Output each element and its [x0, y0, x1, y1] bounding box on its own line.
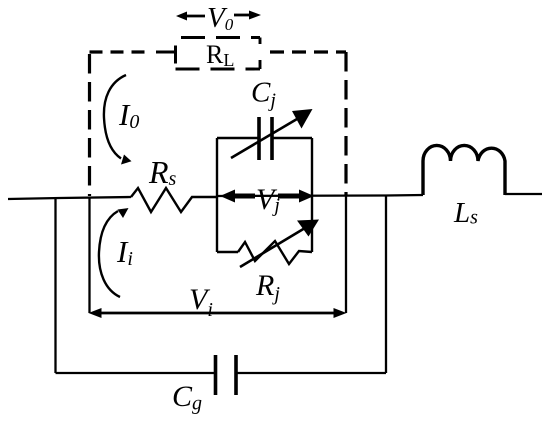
capacitor C_g plates — [216, 355, 237, 395]
inductor L_s — [423, 145, 505, 195]
wire: V_i right leg — [345, 195, 347, 313]
resistor R_L dashed box: bottom edge — [176, 68, 261, 71]
dashed output loop: left edge — [88, 54, 91, 196]
wire: left leg of C_g loop — [54, 198, 56, 373]
resistor R_j variable arrow shaft — [240, 228, 305, 267]
resistor R_j zigzag — [238, 241, 312, 264]
resistor R_L dashed box: solid left tick — [174, 46, 177, 64]
resistor R_j variable arrow head — [297, 220, 319, 237]
wire: right of inductor — [505, 193, 542, 195]
dashed output loop: top edge solid piece joining R_L box — [156, 51, 176, 54]
resistor R_L dashed box: right edge — [259, 38, 262, 70]
capacitor C_j variable arrow shaft — [231, 119, 297, 158]
wire: bottom wire left of C_g — [56, 372, 216, 374]
V_0 measurement arrow left — [184, 15, 205, 18]
wire: right leg of C_g loop — [385, 195, 387, 373]
V_j measurement arrow right part — [278, 194, 301, 199]
wire: main horizontal through junction box to inductor — [217, 195, 423, 196]
resistor R_L dashed box: top edge — [181, 36, 260, 39]
V_0 measurement arrow right — [234, 14, 250, 17]
wire: box bottom edge left stub — [217, 251, 238, 253]
wire: main horizontal left segment — [8, 197, 131, 199]
current I_i curved arrow — [99, 211, 120, 297]
wire: box top edge to C_j left plate — [217, 137, 258, 139]
junction box right edge — [311, 138, 313, 252]
wire: C_j right plate to box top right corner — [272, 137, 312, 139]
V_j measurement arrow left part — [233, 194, 255, 199]
current I_0 curved arrow — [104, 75, 126, 159]
wire: V_i left leg — [88, 197, 90, 313]
dashed output loop: right edge — [344, 52, 347, 196]
resistor R_s zigzag — [131, 188, 217, 212]
dashed output loop: top edge right segment — [270, 50, 346, 53]
capacitor C_j plates — [259, 117, 272, 160]
junction box (C_j / R_j parallel) left edge — [216, 138, 218, 252]
wire: bottom wire right of C_g — [236, 372, 386, 374]
dashed output loop: top edge left segment — [90, 50, 151, 53]
V_i measurement arrow — [96, 312, 339, 315]
capacitor C_j variable arrow head — [292, 109, 313, 129]
